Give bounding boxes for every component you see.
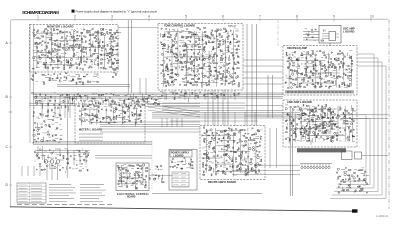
diode D25 [89,67,90,69]
resistor R469 [240,129,242,132]
connector pin 7 [319,166,321,168]
legend row [17,185,46,187]
value label [206,70,209,72]
grid tick 1 [37,18,39,21]
diode D120 [81,114,82,116]
value label [348,121,351,123]
diode D87 [320,61,321,63]
row tick D [9,184,12,186]
value label [310,63,313,65]
value label [174,66,177,68]
transistor Q99 [343,63,345,65]
capacitor C202 [327,137,329,140]
transistor Q152 [239,131,241,133]
resistor R329 [346,85,349,87]
diode D85 [311,55,312,57]
wire [149,174,172,176]
resistor R302 [324,54,326,57]
diode D65 [217,39,218,41]
resistor R33 [59,45,61,48]
wire [166,30,190,32]
transistor Q170 [255,166,257,168]
transistor Q147 [216,166,218,168]
diode D71 [228,38,229,40]
resistor R376 [337,115,338,116]
wire [60,40,64,42]
resistor R312 [333,58,336,60]
transistor Q180 [153,178,155,180]
resistor R402 [113,118,114,120]
transistor Q114 [321,108,323,110]
table row text [174,180,187,182]
wire [314,121,317,123]
transistor Q11 [65,49,67,51]
capacitor C219 [99,121,102,123]
value label [315,73,317,75]
capacitor C292 [345,167,347,170]
capacitor C152 [306,66,309,68]
note line [80,200,103,202]
resistor R326 [344,82,345,84]
wire [225,56,227,61]
resistor R356 [308,137,310,140]
resistor R319 [339,66,340,68]
resistor R34 [60,56,61,58]
resistor R397 [97,106,100,108]
resistor R3 [33,67,35,70]
capacitor C24 [63,64,65,67]
capacitor C278 [140,177,143,178]
transistor Q104 [349,85,351,87]
resistor R289 [311,80,314,82]
value label [295,66,297,68]
resistor R419 [204,139,205,141]
transistor Q68 [222,58,223,59]
resistor R147 [176,47,178,50]
resistor R318 [339,52,341,55]
value label [235,39,238,41]
resistor R14 [46,47,47,49]
value label [236,34,238,36]
resistor R193 [201,59,204,61]
resistor R259 [287,60,289,63]
resistor R503 [132,165,134,166]
capacitor C212 [84,119,85,122]
transistor Q6 [38,56,40,58]
resistor R194 [204,64,205,66]
value label [42,132,45,134]
value label [134,177,137,179]
wire [162,60,165,62]
diode D100 [300,131,301,133]
value label [327,113,329,115]
resistor R368 [330,121,332,122]
capacitor C226 [134,113,136,116]
resistor R295 [320,64,321,66]
resistor R198 [206,85,207,86]
wire [285,75,287,77]
value label [321,132,324,134]
value label [89,47,91,49]
wire [315,118,317,142]
resistor R87 [101,41,104,43]
wire [80,32,82,64]
transistor Q121 [336,117,338,119]
capacitor C251 [230,171,232,174]
diode D8 [52,34,53,36]
capacitor C44 [100,53,102,56]
resistor R137 [171,49,172,51]
capacitor C300 [364,182,367,184]
resistor R470 [239,139,240,141]
transistor Q74 [231,81,233,83]
capacitor C215 [90,119,93,121]
resistor R314 [333,66,336,68]
capacitor C228 [139,106,142,108]
resistor R242 [232,55,234,56]
wire [183,82,218,84]
resistor R182 [196,41,197,43]
resistor R341 [290,139,291,141]
capacitor C6 [41,44,42,47]
capacitor C173 [339,50,341,53]
diode D171 [145,181,146,183]
resistor R526 [182,160,184,163]
wire [223,130,225,164]
diode D50 [187,46,188,48]
capacitor C168 [328,87,331,89]
diode D161 [252,128,253,130]
capacitor C284 [171,161,173,164]
svg-text:TRS-27: TRS-27 [228,25,237,28]
wire [89,59,93,61]
resistor R324 [341,83,344,85]
value label [201,59,203,61]
resistor R70 [95,31,97,34]
resistor R95 [109,32,111,33]
diode D36 [168,46,169,48]
legend row text [19,201,43,203]
wire [55,67,60,69]
wire [94,46,96,51]
diode D152 [237,167,238,169]
capacitor C49 [110,35,112,38]
transistor Q23 [84,64,85,65]
resistor R85 [101,63,103,64]
resistor R68 [93,52,95,55]
wire [344,87,348,89]
value label [34,56,37,58]
transistor Q17 [73,40,75,42]
resistor R124 [163,44,166,46]
resistor R478 [245,174,246,176]
value label [343,113,346,115]
capacitor C185 [291,122,293,125]
capacitor C31 [73,39,75,42]
svg-text:7: 7 [259,15,261,19]
circuit cluster: monitor board interior [33,28,119,70]
resistor R408 [124,113,126,114]
wire [360,180,366,182]
wire [42,64,77,66]
value label [34,37,38,39]
resistor R530 [339,175,341,178]
resistor R230 [221,76,224,78]
resistor R192 [203,48,204,50]
resistor R290 [312,83,314,86]
capacitor C151 [307,61,309,64]
diode D102 [306,130,307,132]
value label [323,78,325,80]
power rail table [172,172,189,187]
transistor Q76 [235,77,237,79]
capacitor C170 [330,71,331,74]
resistor R67 [91,46,93,47]
resistor R79 [97,57,99,60]
resistor R375 [332,137,335,139]
resistor R140 [170,76,171,78]
wire [301,57,303,59]
capacitor C287 [176,167,179,168]
wire [52,40,83,42]
capacitor C214 [86,119,87,122]
resistor R136 [170,37,172,38]
capacitor C252 [233,133,236,135]
diode D54 [199,78,200,80]
resistor R418 [141,120,142,122]
capacitor C55 [111,62,114,64]
resistor R437 [212,148,214,149]
IC U10 in osc board [329,32,336,41]
resistor R443 [217,155,218,157]
resistor R508 [134,187,137,189]
resistor R111 [76,82,77,84]
capacitor C64 [58,80,61,82]
transistor Q156 [244,135,245,136]
value label [185,163,187,165]
wire [184,49,189,51]
board outline: monitor board [30,25,119,73]
value label [175,162,177,164]
value label [330,80,332,82]
value label [306,33,308,35]
transistor Q77 [285,82,286,83]
resistor R212 [214,63,216,64]
diode D135 [202,135,203,137]
transistor Q54 [196,84,198,86]
capacitor C221 [110,110,113,112]
value label [325,104,327,106]
resistor R213 [214,66,216,69]
transistor Q190 [33,134,35,136]
resistor R364 [324,113,325,114]
capacitor C184 [289,119,292,121]
diode D86 [310,70,311,72]
transistor Q165 [253,149,255,151]
wire [294,114,296,142]
value label [203,32,205,34]
top border rule with grid numbers [11,15,388,22]
value label [314,137,316,139]
capacitor C90 in osc board [324,30,326,32]
capacitor C40 [89,66,92,68]
wire [86,51,88,55]
legend row [17,202,46,204]
wire [241,144,246,146]
capacitor C237 [213,150,214,153]
capacitor C103 [207,34,209,37]
wire [119,183,134,185]
connector row baseline [300,163,332,165]
transistor Q20 [80,56,81,57]
circuit cluster: bias circuit cluster [337,168,369,194]
diode D34 [161,73,162,75]
resistor R501 [126,177,129,179]
value label [88,120,91,122]
wire [358,170,363,172]
resistor R280 [306,57,307,59]
wire [352,111,354,142]
capacitor C82 [177,59,180,61]
resistor R428 [205,165,207,166]
wire [57,42,59,68]
capacitor C118 [220,57,223,59]
capacitor C183 [290,106,292,109]
left page frame with row letters [6,20,13,208]
resistor R426 [207,155,208,157]
value label [182,80,185,82]
resistor R113 [79,81,81,82]
resistor R235 [228,35,229,37]
wire [328,53,330,76]
value label [181,30,184,32]
resistor R153 [182,36,184,39]
resistor R394 [92,114,93,116]
rec eq bottom label strip [285,90,354,93]
wire [98,30,100,69]
resistor R100 [110,66,112,69]
diode D1 [42,50,43,52]
resistor R427 [206,157,208,160]
resistor R515 [138,175,141,177]
wire [286,104,289,106]
resistor R400 [108,117,110,118]
wire [314,115,317,117]
capacitor C199 [317,105,320,107]
resistor R245 [235,63,237,66]
resistor R462 [232,147,235,148]
wire [303,39,319,41]
resistor R321 [341,53,343,54]
board outline: line amp board [283,100,357,147]
resistor R105 [44,82,45,84]
wire [242,135,245,137]
wire [40,35,43,37]
resistor R456 [227,144,229,147]
capacitor C114 [216,78,219,80]
wire [39,57,86,59]
value label [164,48,167,50]
capacitor C5 [42,40,44,43]
value label [296,139,299,141]
diode D10 [52,48,53,50]
capacitor C163 [323,64,326,66]
transistor Q66 [222,39,224,41]
value label [319,109,321,111]
value label [131,184,133,186]
resistor R348 [295,136,296,138]
section divider (dash-dot) [277,20,279,46]
value label [226,46,229,48]
resistor R516 [146,168,148,169]
capacitor C218 [96,119,98,122]
value label [33,107,35,109]
resistor R413 [135,122,136,123]
wire [135,110,137,115]
wire [192,43,196,45]
wire [217,163,233,165]
capacitor C244 [221,148,222,151]
svg-text:3: 3 [111,15,113,19]
wire [118,110,122,112]
capacitor C262 [249,137,252,139]
wire [233,30,235,81]
resistor R71 [95,35,97,38]
resistor R457 [226,153,228,156]
resistor R226 [221,82,223,85]
resistor R273 [301,73,304,75]
capacitor C26 [65,38,68,40]
capacitor C147 [296,70,298,73]
resistor R92 [108,52,110,55]
resistor R66 [92,34,94,37]
capacitor C232 [202,157,204,160]
capacitor C95 [198,64,200,67]
capacitor C136 [307,34,310,36]
resistor R406 [124,110,126,113]
resistor R283 [312,53,314,54]
diode D39 [169,60,170,62]
resistor R144 [173,44,175,45]
legend row [17,195,46,197]
resistor R43 [72,36,74,37]
capacitor C123 [225,76,228,78]
value label [36,116,39,118]
value label [234,27,236,29]
resistor R210 [213,55,214,57]
wire [288,138,290,144]
transistor Q2 [33,57,35,59]
capacitor C92 [194,75,197,76]
transistor Q46 [175,68,177,70]
resistor R522 [158,175,161,177]
wire [340,119,343,121]
resistor R497 [118,183,119,185]
value label [123,168,126,170]
grid tick 8 [296,18,298,21]
value label [179,40,182,42]
resistor R200 [208,41,209,43]
resistor R132 [166,67,168,68]
capacitor C216 [93,106,96,107]
value label [82,117,85,119]
value label [121,185,123,187]
capacitor C11 [47,67,50,69]
capacitor C68 [72,78,74,81]
value label [121,164,124,166]
resistor R229 [223,73,224,75]
capacitor C113 [216,62,219,64]
